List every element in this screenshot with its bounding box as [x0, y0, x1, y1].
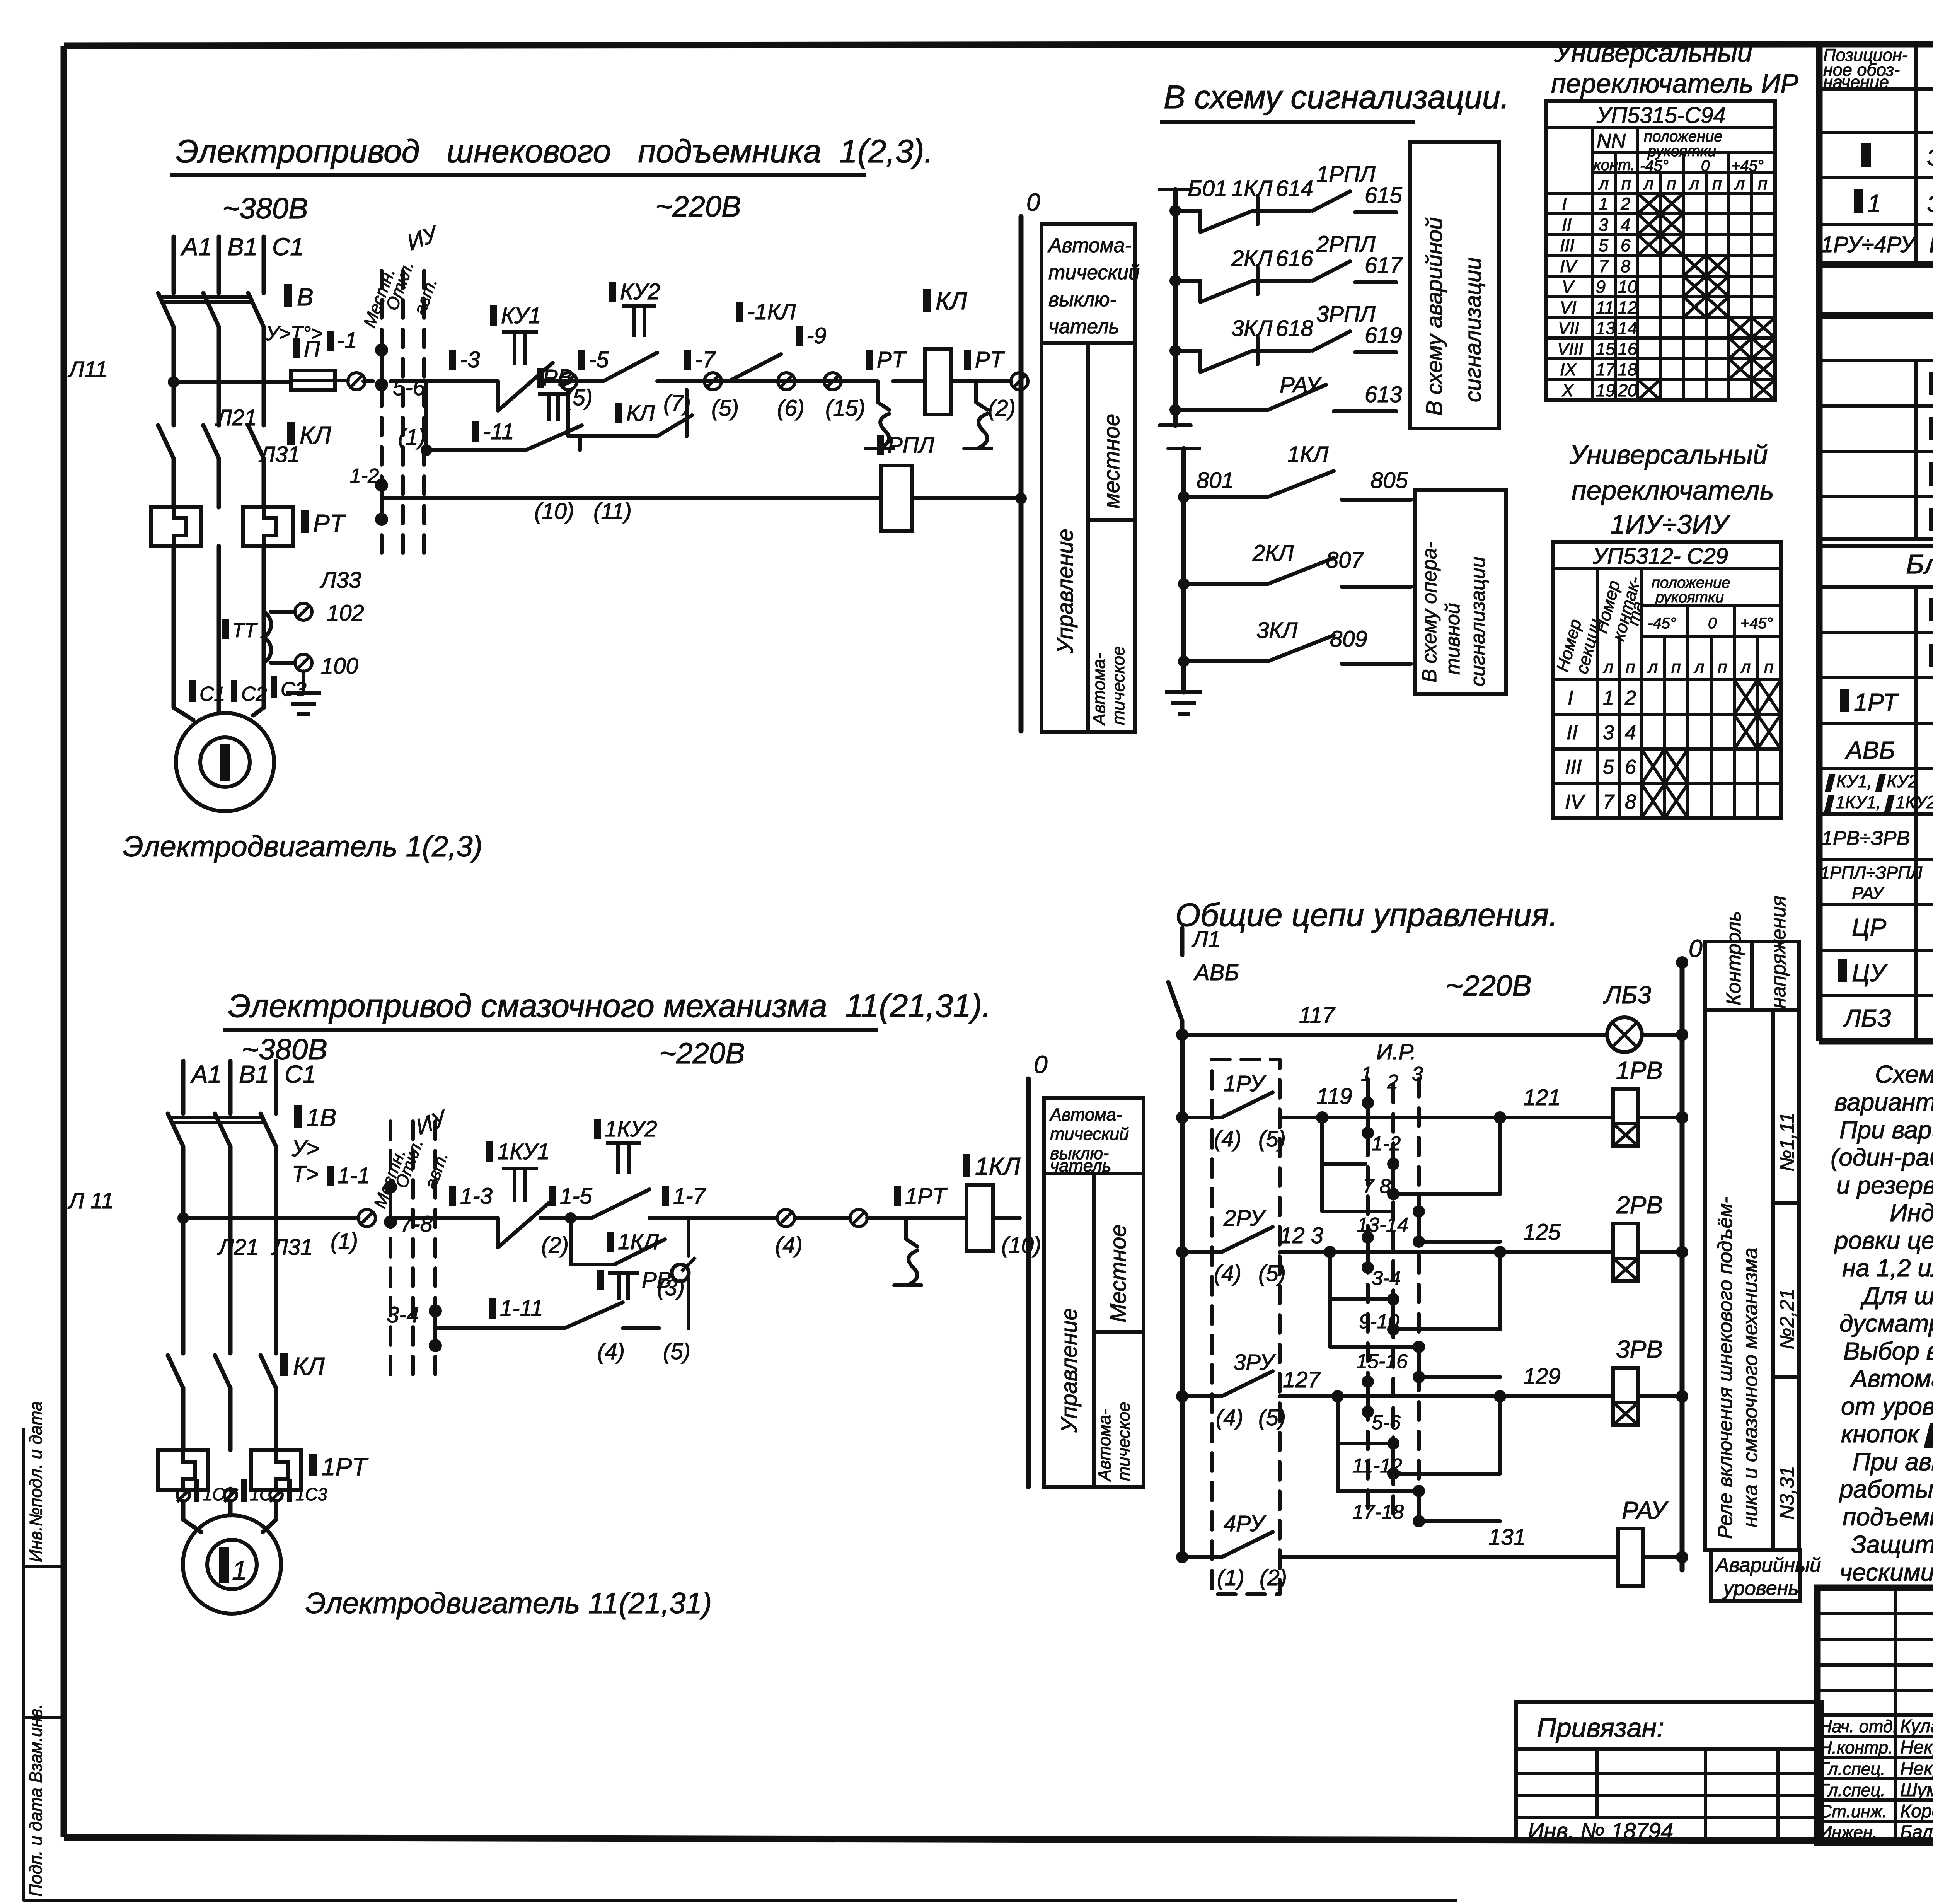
svg-text:PT: PT	[313, 509, 346, 537]
svg-text:Электропривод смазочного мех: Электропривод смазочного механизма 11(21…	[228, 988, 991, 1024]
svg-text:4: 4	[1625, 722, 1636, 744]
ИУ header line2	[1642, 604, 1781, 607]
end seg 809	[1342, 662, 1411, 666]
4РУ blade	[1222, 1532, 1273, 1557]
svg-text:Общие цепи управления.: Общие цепи управления.	[1175, 897, 1558, 933]
signal bus 1 bottom tick	[1160, 423, 1191, 427]
svg-text:подъемник может быть или р: подъемник может быть или рабочим, или ре…	[1843, 1503, 1933, 1531]
motor 1 inner circle	[200, 737, 250, 787]
connector dots 7-8 lower c2	[384, 1215, 397, 1228]
node 807	[1178, 578, 1190, 590]
svg-text:5-6: 5-6	[1372, 1411, 1401, 1434]
group3 left collector	[1338, 1396, 1417, 1491]
branch2 end seg	[1355, 280, 1396, 284]
svg-text:Электродвигатель АР22 14 380В: Электродвигатель АР22 14 380В, 0.8 квт.	[1927, 191, 1933, 217]
РВ button blade	[526, 425, 582, 450]
column divider col1	[1914, 44, 1918, 1041]
node branch3	[1169, 345, 1181, 357]
phase B2 seg3	[228, 1388, 233, 1450]
svg-text:0: 0	[1689, 935, 1703, 962]
РТ designator bar 1	[866, 350, 873, 370]
phase A2 seg4	[181, 1489, 186, 1490]
svg-text:14: 14	[1618, 318, 1637, 338]
title underline	[1160, 120, 1415, 124]
rung 4РУ wire right	[1280, 1555, 1618, 1559]
contact 1-1 bar c2	[327, 1166, 334, 1186]
svg-text:-5: -5	[589, 347, 609, 372]
contact 1-7 designator bar	[684, 350, 691, 370]
phase A wire seg2	[172, 327, 176, 425]
motor2 lead B	[228, 1501, 233, 1515]
svg-text:(5): (5)	[1258, 1405, 1286, 1430]
title underline	[170, 173, 866, 177]
РВ rung wire	[426, 436, 580, 450]
svg-text:2PB: 2PB	[1616, 1191, 1663, 1219]
svg-text:Управление: Управление	[1053, 529, 1078, 654]
svg-text:15-16: 15-16	[1356, 1350, 1408, 1373]
motor 2 outer circle	[183, 1515, 281, 1614]
svg-text:20: 20	[1618, 380, 1637, 400]
lamp ЛБЗ	[1607, 1017, 1642, 1052]
svg-text:Управление: Управление	[1057, 1308, 1082, 1433]
column box 1 outer	[1042, 224, 1135, 732]
rung 3РУ wire right	[1280, 1394, 1368, 1398]
1РТ bar c2	[894, 1186, 901, 1206]
svg-text:~380B: ~380B	[222, 192, 308, 225]
ИР X marks +45 rows VII-IX	[1729, 317, 1775, 379]
column box 1 vertical divider	[1086, 343, 1090, 732]
3РУ blade	[1222, 1371, 1273, 1396]
wire jog over selector	[363, 379, 441, 383]
svg-text:п: п	[1764, 657, 1774, 677]
РВ rung c2 wire	[435, 1273, 689, 1328]
lamp ЛБЗ cross	[1612, 1022, 1637, 1047]
svg-text:6: 6	[1625, 756, 1636, 778]
svg-text:УП5315-С94: УП5315-С94	[1596, 103, 1726, 128]
relay line 2РВ	[1500, 1250, 1613, 1254]
svg-text:ровки цепей, обозначает номе: ровки цепей, обозначает номер электропри…	[1834, 1227, 1933, 1254]
Аварийный уровень box	[1711, 1550, 1800, 1601]
thermal contact 1РТ c2	[894, 1218, 921, 1285]
svg-text:8: 8	[1625, 791, 1636, 813]
РВ rung vertical left	[424, 381, 428, 450]
phase C2 seg3	[274, 1388, 278, 1450]
terminal circle (4)a c2	[777, 1210, 794, 1227]
svg-text:выклю-: выклю-	[1048, 288, 1117, 311]
ИУ header line3	[1642, 635, 1781, 638]
pair 7-8 stub	[1391, 1164, 1395, 1194]
svg-text:1-5: 1-5	[560, 1184, 593, 1209]
РПЛ designator bar	[877, 435, 884, 455]
node 1РУ	[1176, 1111, 1188, 1124]
svg-text:12 3: 12 3	[1280, 1223, 1323, 1248]
2РВ coil body	[1613, 1223, 1638, 1281]
svg-text:(один-рабочий, один-резервный: (один-рабочий, один-резервный), замер ур…	[1831, 1143, 1933, 1171]
С2 designator bar	[231, 680, 237, 702]
pair 9-10 stub	[1391, 1299, 1395, 1329]
node on phase A	[168, 376, 179, 388]
svg-text:(11): (11)	[593, 499, 632, 524]
signal bus 2	[1181, 449, 1186, 692]
РАУ coil body	[1618, 1529, 1643, 1586]
svg-text:809: 809	[1330, 626, 1367, 652]
phase B1 wire	[217, 237, 221, 293]
contactor КЛ blade A2	[168, 1355, 183, 1388]
svg-text:3КЛ: 3КЛ	[1231, 316, 1272, 341]
border frame bottom	[64, 1837, 1933, 1842]
svg-text:п: п	[1718, 657, 1727, 677]
branch 807 wire	[1184, 582, 1268, 586]
blade 801	[1268, 471, 1334, 497]
svg-text:4РУ: 4РУ	[1224, 1511, 1266, 1536]
svg-text:117: 117	[1299, 1003, 1336, 1028]
rung 4РУ wire left	[1182, 1555, 1222, 1559]
ИУ лп row	[1553, 678, 1781, 681]
svg-text:№2,21: №2,21	[1776, 1288, 1798, 1350]
svg-text:619: 619	[1365, 323, 1402, 348]
svg-text:Универсальный: Универсальный	[1569, 440, 1768, 470]
svg-text:618: 618	[1276, 316, 1313, 341]
svg-text:местное: местное	[1099, 414, 1124, 508]
terminal circle 1С2	[224, 1489, 237, 1501]
left bus common	[1180, 1035, 1185, 1557]
phase A2 wire	[181, 1061, 186, 1114]
node r2	[1324, 1246, 1336, 1258]
svg-text:PB: PB	[543, 365, 573, 390]
connector stub 1-2	[380, 485, 384, 519]
svg-text:15: 15	[1596, 339, 1616, 359]
node relay3	[1494, 1390, 1506, 1402]
relay line 3РВ	[1500, 1394, 1613, 1398]
branch3 end seg	[1355, 350, 1396, 354]
svg-text:A1: A1	[180, 233, 212, 261]
sheet bottom edge line	[23, 1899, 1457, 1902]
rung 2РУ wire right	[1280, 1250, 1368, 1254]
svg-text:3-4: 3-4	[387, 1302, 419, 1327]
pushbutton КУ2 NO blade	[603, 353, 657, 381]
phase B2 wire	[228, 1061, 233, 1114]
ИР header row2 line	[1592, 151, 1775, 154]
svg-text:Л 11: Л 11	[67, 1188, 114, 1213]
latch branch c2	[571, 1218, 689, 1281]
branch 801 wire	[1184, 495, 1268, 499]
Привязан block outer	[1516, 1702, 1822, 1841]
fuse designator bar	[293, 338, 300, 358]
svg-text:ческими выключателями.: ческими выключателями.	[1839, 1558, 1933, 1586]
svg-text:Автома-: Автома-	[1094, 1409, 1114, 1482]
terminal slash end	[1013, 374, 1026, 388]
svg-text:Шумилов: Шумилов	[1900, 1780, 1933, 1800]
parts table outer left	[1816, 44, 1823, 1041]
РАУ end seg	[1334, 409, 1396, 413]
svg-text:(5): (5)	[1258, 1261, 1286, 1286]
svg-text:(15): (15)	[825, 396, 865, 421]
svg-text:616: 616	[1276, 246, 1314, 271]
phase A wire seg3	[172, 458, 176, 507]
terminal circle (15)	[824, 373, 841, 390]
КЛ designator bar	[287, 422, 295, 445]
Привязан rows	[1516, 1773, 1822, 1817]
КУ1 designator bar	[490, 305, 497, 326]
svg-text:2: 2	[1624, 687, 1636, 709]
title block left col verticals	[1895, 1588, 1933, 1843]
svg-text:Инв.№подл. и дата: Инв.№подл. и дата	[26, 1401, 46, 1562]
svg-text:PT: PT	[877, 347, 907, 372]
phase C2 wire	[274, 1061, 278, 1114]
parts table double line above БОУ	[1819, 539, 1933, 546]
ground signal bus2	[1165, 692, 1202, 714]
svg-text:Электропривод шнекового по: Электропривод шнекового подъемника 1(2,3…	[176, 133, 933, 169]
1КУ1 designator bar c2	[486, 1141, 493, 1162]
contact 1-3 designator bar	[449, 350, 456, 370]
svg-text:Кулагин: Кулагин	[1900, 1716, 1933, 1737]
svg-text:1B: 1B	[306, 1104, 336, 1131]
fuse 1П body	[291, 370, 335, 390]
svg-text:121: 121	[1523, 1085, 1561, 1110]
wire 3РВ to bus	[1638, 1394, 1682, 1398]
breaker 1В blade phase C	[248, 293, 264, 327]
svg-text:рукоятки: рукоятки	[1655, 589, 1724, 606]
svg-text:X: X	[1561, 380, 1574, 400]
row 1В2 designator bar	[1929, 598, 1933, 621]
title block signature top line	[1817, 1713, 1933, 1717]
svg-text:B1: B1	[239, 1060, 269, 1088]
svg-text:Некрасов: Некрасов	[1900, 1759, 1933, 1779]
svg-text:сигнализации: сигнализации	[1461, 257, 1486, 402]
svg-text:C1: C1	[272, 233, 304, 261]
node lamp bus	[1676, 1029, 1688, 1041]
group3 right collector	[1368, 1396, 1500, 1521]
svg-text:л: л	[1688, 174, 1699, 193]
КЛ coil body	[925, 349, 951, 415]
svg-text:2КЛ: 2КЛ	[1231, 246, 1272, 271]
svg-text:(5): (5)	[711, 396, 739, 421]
rung A2 wire	[390, 1216, 1020, 1220]
rung 1РУ wire right	[1280, 1116, 1368, 1119]
breaker 1В designator bar c2	[294, 1105, 302, 1128]
terminal slash (1) c2	[360, 1211, 374, 1225]
connector dots 5-6 upper	[375, 343, 388, 357]
node РАУ bus	[1676, 1551, 1688, 1563]
svg-text:тический: тический	[1048, 261, 1140, 284]
svg-text:-3: -3	[460, 347, 480, 372]
column box 2 right split	[1094, 1330, 1144, 1334]
svg-text:на 1,2 или 3 соответственно: на 1,2 или 3 соответственно.	[1842, 1254, 1933, 1282]
КЛ designator bar c2	[280, 1353, 288, 1376]
parts table thick line below БОУ header	[1819, 585, 1933, 589]
ground symbol	[286, 693, 321, 714]
thermal РТ heater box C	[243, 507, 293, 546]
contact 1-9 designator bar	[796, 326, 803, 346]
contact 1-11 bar c2	[489, 1298, 496, 1319]
svg-text:N3,31: N3,31	[1776, 1466, 1798, 1520]
РВ blade c2	[564, 1302, 623, 1328]
pair 13-14 dots	[1413, 1205, 1425, 1218]
ИР dashed column 1	[1366, 1079, 1370, 1516]
terminal slash 1-7	[706, 374, 720, 388]
pair 3-4 stub	[1366, 1237, 1370, 1268]
svg-text:(10): (10)	[1001, 1233, 1041, 1258]
SIGNAL CIRCUITS	[1160, 79, 1509, 714]
svg-text:1-11: 1-11	[500, 1296, 543, 1321]
svg-text:100: 100	[321, 653, 358, 679]
svg-text:(2): (2)	[1260, 1565, 1287, 1590]
phase C wire seg2	[262, 327, 266, 425]
РВ designator bar	[537, 368, 544, 388]
РТ designator bar 2	[964, 350, 971, 370]
pair 1-2 dots	[1362, 1097, 1374, 1109]
svg-text:переключатель ИР: переключатель ИР	[1551, 68, 1798, 99]
svg-text:NN: NN	[1597, 130, 1626, 152]
pair 17-18 dots	[1413, 1485, 1425, 1497]
svg-text:л: л	[1693, 657, 1704, 677]
end seg 807	[1342, 585, 1411, 589]
row 1КЛ designator bar	[1929, 417, 1933, 440]
svg-text:и резервный шнековый под'ем: и резервный шнековый под'емник включаетс…	[1836, 1171, 1933, 1199]
ИР data row lines	[1546, 214, 1775, 379]
breaker 1В blade phase B	[203, 293, 219, 327]
ИУ table outer	[1553, 542, 1781, 818]
parts table bottom	[1819, 1038, 1933, 1045]
pair 17-18 stub	[1417, 1491, 1421, 1521]
svg-text:Инжен.: Инжен.	[1819, 1822, 1877, 1842]
svg-text:Аварийный: Аварийный	[1715, 1554, 1821, 1576]
pushbutton 1КУ1 stem c2	[502, 1169, 538, 1202]
svg-text:от уровней в приемной камер: от уровней в приемной камере, местное- с…	[1841, 1392, 1933, 1420]
svg-text:ЦР: ЦР	[1852, 913, 1887, 941]
svg-text:п: п	[1671, 657, 1681, 677]
branch 2КЛ wire	[1175, 281, 1311, 302]
svg-text:л: л	[1734, 174, 1745, 193]
signal bus 1 top tick	[1160, 188, 1191, 191]
svg-text:тивной: тивной	[1442, 603, 1464, 675]
svg-text:варианта: два - рабочих, один: варианта: два - рабочих, один - резервны…	[1834, 1088, 1933, 1116]
svg-text:Электродвигатель 1(2,3): Электродвигатель 1(2,3)	[123, 830, 482, 863]
svg-text:Л1: Л1	[1191, 926, 1220, 952]
ИР X marks row X	[1638, 379, 1775, 400]
svg-text:При варианте насосной станц: При варианте насосной станции с двумя шн…	[1839, 1116, 1933, 1144]
КЛ latch branch wire	[568, 390, 687, 436]
svg-text:102: 102	[327, 601, 364, 626]
motor 1 bar	[220, 744, 230, 781]
Реле включения box	[1705, 1010, 1799, 1550]
breaker linkage bar	[162, 297, 252, 302]
row 1Пр designator bar	[1929, 462, 1933, 486]
svg-text:0: 0	[1026, 188, 1040, 216]
svg-text:(4): (4)	[1214, 1261, 1241, 1286]
Контроль box divider	[1750, 942, 1754, 1010]
motor 2 inner circle	[207, 1540, 257, 1589]
SWITCH TABLE ИУ	[1552, 440, 1781, 818]
node 2РУ	[1176, 1246, 1188, 1258]
node 809	[1178, 655, 1190, 667]
row 1ТТ designator bar	[1929, 508, 1933, 531]
circle terminal slash	[349, 374, 363, 388]
svg-text:Н.контр.: Н.контр.	[1819, 1738, 1893, 1757]
svg-text:4: 4	[1621, 215, 1630, 235]
svg-text:1КУ2: 1КУ2	[605, 1116, 657, 1141]
pushbutton КУ1 NC blade	[486, 363, 553, 411]
branch РАУ wire	[1175, 408, 1268, 412]
pair 15-16 stub	[1417, 1347, 1421, 1377]
column box 2 vertical divider	[1092, 1174, 1096, 1487]
ИУ column lines	[1597, 568, 1757, 818]
pair 3-4 dots	[1362, 1231, 1374, 1244]
svg-text:П: П	[304, 336, 320, 362]
node 2РВ bus	[1676, 1246, 1688, 1258]
ИР dashed column 3	[1417, 1079, 1421, 1516]
svg-text:II: II	[1562, 215, 1572, 235]
svg-text:-7: -7	[695, 347, 716, 372]
svg-text:чатель: чатель	[1048, 316, 1119, 338]
branch3 РПЛ blade	[1313, 331, 1350, 351]
svg-text:3РУ: 3РУ	[1233, 1350, 1276, 1375]
svg-text:119: 119	[1316, 1084, 1352, 1109]
svg-text:II: II	[1567, 722, 1578, 744]
node branch2	[1169, 275, 1181, 287]
thermal 1РТ heater box C c2	[251, 1450, 301, 1490]
svg-text:Выбор вида управления осуще: Выбор вида управления осуществляется изб…	[1843, 1337, 1933, 1365]
thermal РТ heater box A	[151, 507, 201, 546]
РВ stem c2	[608, 1273, 639, 1300]
svg-text:(5): (5)	[663, 1339, 690, 1364]
svg-text:B: B	[297, 283, 314, 311]
svg-text:IV: IV	[1565, 791, 1585, 813]
svg-text:1PB: 1PB	[1616, 1056, 1663, 1084]
ИР X marks -45 rows I-III	[1638, 193, 1683, 255]
svg-text:13: 13	[1596, 318, 1615, 338]
terminal slash (4)a c2	[779, 1211, 793, 1225]
svg-text:VI: VI	[1560, 298, 1577, 317]
node relay2	[1494, 1246, 1506, 1258]
svg-text:Королева: Королева	[1900, 1801, 1933, 1822]
svg-text:A1: A1	[190, 1060, 222, 1088]
node r3	[1331, 1390, 1344, 1402]
node РПЛ bus	[1015, 493, 1027, 504]
svg-text:Универсальный: Универсальный	[1554, 38, 1752, 68]
branch1 РПЛ blade	[1313, 191, 1350, 211]
svg-text:~220B: ~220B	[1446, 969, 1532, 1002]
table ИР outer	[1546, 101, 1775, 400]
terminal circle 100	[295, 654, 312, 671]
svg-text:C1: C1	[285, 1060, 316, 1088]
phase A1 wire	[172, 237, 176, 293]
1РВ coil body	[1613, 1089, 1638, 1146]
circle terminal (1)	[348, 373, 365, 390]
svg-text:(6): (6)	[777, 396, 805, 421]
svg-text:1КЛ: 1КЛ	[1231, 176, 1272, 201]
svg-text:сигнализации: сигнализации	[1467, 556, 1489, 686]
pair 7-8 dots	[1387, 1158, 1399, 1170]
1С1 designator bar	[194, 1479, 199, 1502]
bus 0 vertical	[1019, 217, 1024, 731]
connector stub 3-4	[433, 1311, 437, 1346]
node 801	[1178, 491, 1190, 503]
pair 11-12 dots	[1387, 1437, 1399, 1450]
svg-text:16: 16	[1618, 339, 1638, 359]
breaker 1В blade B2	[215, 1114, 230, 1146]
svg-text:6: 6	[1621, 235, 1631, 255]
signature rows	[1817, 1736, 1933, 1821]
svg-text:7: 7	[1599, 256, 1609, 276]
svg-text:Реле уровня РУ-2М: Реле уровня РУ-2М	[1929, 230, 1933, 258]
terminal circle 102	[295, 603, 312, 620]
1КЛ coil bar c2	[963, 1154, 970, 1177]
dashed РУ box	[1212, 1059, 1280, 1594]
svg-text:2: 2	[1387, 1071, 1398, 1093]
latch blade c2	[614, 1239, 665, 1264]
contact 1-11 designator bar	[472, 421, 479, 442]
